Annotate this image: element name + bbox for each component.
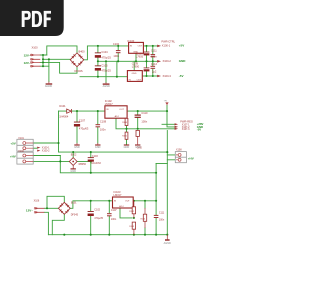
svg-text:PWR-CTRL: PWR-CTRL bbox=[161, 39, 175, 43]
svg-text:DF04S: DF04S bbox=[71, 213, 79, 216]
svg-text:B400: B400 bbox=[79, 49, 86, 53]
svg-text:X101: X101 bbox=[18, 137, 24, 140]
svg-text:100n: 100n bbox=[151, 54, 157, 58]
svg-text:100n: 100n bbox=[141, 119, 147, 123]
svg-text:X100-2: X100-2 bbox=[42, 150, 50, 153]
svg-text:2µ2: 2µ2 bbox=[152, 70, 157, 74]
svg-text:+5V: +5V bbox=[179, 44, 184, 48]
svg-text:X108: X108 bbox=[176, 149, 182, 152]
svg-text:L7900: L7900 bbox=[132, 65, 140, 69]
svg-text:GND: GND bbox=[74, 146, 80, 149]
svg-text:470µ/63: 470µ/63 bbox=[79, 127, 89, 131]
svg-text:L7905: L7905 bbox=[136, 54, 144, 58]
svg-text:C108: C108 bbox=[100, 120, 107, 124]
svg-text:100n: 100n bbox=[100, 127, 106, 131]
svg-text:C104: C104 bbox=[101, 50, 108, 54]
svg-text:C102: C102 bbox=[94, 209, 100, 212]
svg-text:RB050: RB050 bbox=[79, 163, 87, 166]
svg-text:470µ/25: 470µ/25 bbox=[101, 56, 111, 60]
svg-text:B101: B101 bbox=[71, 202, 77, 205]
svg-text:C102: C102 bbox=[113, 42, 120, 46]
svg-text:-5V: -5V bbox=[197, 127, 201, 131]
svg-text:X100-2: X100-2 bbox=[163, 59, 172, 63]
svg-text:12V~: 12V~ bbox=[24, 53, 31, 57]
svg-text:D101: D101 bbox=[59, 104, 66, 108]
svg-text:X100-3: X100-3 bbox=[163, 74, 172, 78]
svg-text:ADJ: ADJ bbox=[115, 115, 119, 118]
svg-text:X102: X102 bbox=[18, 150, 24, 153]
svg-text:C107: C107 bbox=[111, 209, 117, 212]
svg-text:GND: GND bbox=[133, 51, 138, 53]
svg-text:470µ/25: 470µ/25 bbox=[94, 217, 103, 220]
svg-text:GND: GND bbox=[135, 146, 141, 149]
svg-text:C111: C111 bbox=[159, 212, 165, 215]
svg-text:AGND: AGND bbox=[103, 85, 110, 88]
svg-text:X100-1: X100-1 bbox=[162, 44, 171, 48]
svg-text:GND: GND bbox=[179, 59, 187, 63]
svg-text:-5V: -5V bbox=[179, 74, 184, 78]
svg-text:+HV: +HV bbox=[188, 157, 194, 161]
svg-text:C107: C107 bbox=[79, 119, 86, 123]
svg-text:470µ/25: 470µ/25 bbox=[101, 68, 111, 72]
svg-text:GND: GND bbox=[95, 146, 101, 149]
svg-text:AGND: AGND bbox=[45, 85, 52, 88]
svg-text:IC100: IC100 bbox=[127, 39, 134, 43]
svg-text:C103: C103 bbox=[92, 155, 98, 158]
svg-text:OUT: OUT bbox=[137, 80, 142, 82]
svg-text:GND: GND bbox=[132, 73, 137, 75]
svg-text:12V~: 12V~ bbox=[24, 61, 31, 65]
svg-text:ADJ: ADJ bbox=[119, 205, 123, 208]
svg-text:100n: 100n bbox=[113, 54, 119, 58]
svg-text:X106: X106 bbox=[34, 200, 40, 203]
svg-text:X100: X100 bbox=[32, 45, 39, 49]
svg-text:DF04S: DF04S bbox=[75, 69, 83, 73]
svg-text:OUT: OUT bbox=[125, 200, 130, 202]
svg-text:12V~: 12V~ bbox=[26, 209, 33, 213]
svg-text:1N4004: 1N4004 bbox=[59, 114, 69, 118]
svg-text:+5V: +5V bbox=[10, 141, 15, 145]
svg-text:10mF/63: 10mF/63 bbox=[91, 162, 101, 165]
svg-text:AGND: AGND bbox=[164, 242, 171, 245]
svg-text:GND: GND bbox=[70, 170, 76, 173]
svg-text:LM317: LM317 bbox=[114, 193, 122, 197]
svg-text:C105: C105 bbox=[101, 64, 108, 68]
svg-text:+HV: +HV bbox=[10, 154, 16, 158]
svg-text:OUT: OUT bbox=[119, 109, 124, 111]
svg-text:B102: B102 bbox=[71, 154, 77, 157]
svg-text:100n: 100n bbox=[159, 219, 165, 222]
svg-text:LM317: LM317 bbox=[105, 102, 113, 106]
svg-text:C111: C111 bbox=[151, 48, 157, 52]
svg-text:X107-3: X107-3 bbox=[182, 128, 190, 131]
svg-text:C110: C110 bbox=[141, 111, 148, 115]
svg-text:GND: GND bbox=[124, 146, 130, 149]
svg-text:C112: C112 bbox=[151, 62, 158, 66]
svg-text:OUT: OUT bbox=[138, 46, 143, 48]
svg-text:100n: 100n bbox=[111, 218, 117, 221]
